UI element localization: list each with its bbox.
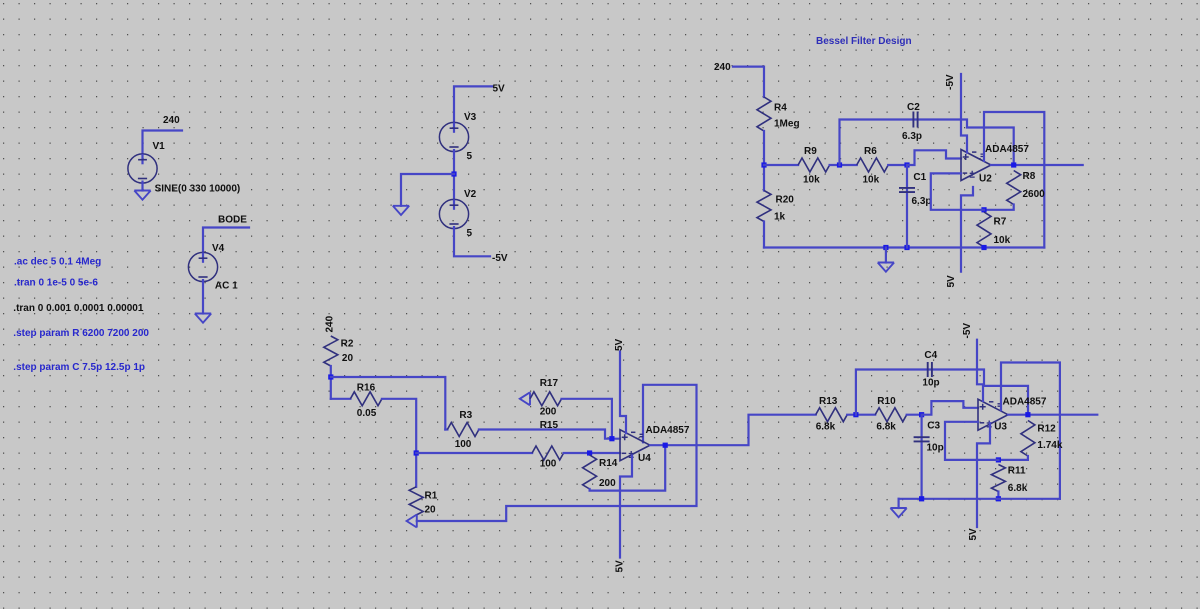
svg-text:6.8k: 6.8k	[816, 422, 836, 433]
node R10/C3/+in	[919, 412, 924, 417]
node R11/rail	[996, 496, 1001, 501]
svg-text:R10: R10	[877, 396, 896, 407]
svg-text:5: 5	[467, 151, 473, 162]
svg-text:6.3p: 6.3p	[902, 131, 922, 142]
ground (V3/V2)	[393, 206, 409, 215]
voltage source V1	[128, 154, 157, 183]
svg-text:200: 200	[540, 407, 557, 418]
resistor R7	[977, 212, 991, 247]
svg-text:AC 1: AC 1	[215, 281, 238, 292]
svg-text:C3: C3	[927, 421, 940, 432]
resistor R12	[1021, 421, 1035, 457]
wire R1 net to U4 PD	[417, 385, 697, 521]
svg-text:0.05: 0.05	[357, 408, 377, 419]
node R8/R7/feedback	[981, 207, 986, 212]
svg-text:10p: 10p	[922, 378, 939, 389]
resistor R13	[816, 408, 848, 422]
wire to ground (V3/V2)	[401, 174, 454, 206]
svg-text:5V: 5V	[615, 560, 626, 573]
svg-text:5V: 5V	[946, 275, 957, 288]
resistor R4	[757, 97, 771, 131]
svg-text:R12: R12	[1037, 424, 1056, 435]
node R15/R14	[587, 450, 592, 455]
svg-text:R1: R1	[425, 491, 438, 502]
svg-text:1k: 1k	[774, 212, 786, 223]
svg-text:R6: R6	[864, 146, 877, 157]
svg-text:10k: 10k	[994, 235, 1011, 246]
wire rail to ground stub	[885, 248, 887, 263]
node main line left	[414, 450, 419, 455]
svg-text:R4: R4	[774, 103, 787, 114]
svg-text:SINE(0 330 10000): SINE(0 330 10000)	[155, 183, 241, 194]
svg-text:BODE: BODE	[218, 215, 247, 226]
voltage source V4	[188, 252, 217, 281]
svg-text:5V: 5V	[968, 528, 979, 541]
svg-text:R16: R16	[357, 383, 376, 394]
wire C4 feedback	[856, 370, 1028, 415]
resistor R14	[583, 455, 597, 489]
stage3 bottom rail	[899, 498, 1060, 500]
svg-text:.step param C 7.5p 12.5p 1p: .step param C 7.5p 12.5p 1p	[13, 362, 145, 373]
wire U2 PD to rail	[984, 112, 1044, 248]
resistor R11	[991, 465, 1005, 492]
op-amp U4	[620, 430, 650, 461]
node U4 output	[663, 443, 668, 448]
svg-text:V3: V3	[464, 112, 477, 123]
svg-text:-5V: -5V	[945, 74, 956, 90]
node U3 output	[1025, 412, 1030, 417]
wire U2 V- to 5V	[961, 187, 973, 272]
svg-text:240: 240	[325, 315, 336, 332]
wire rail to ground stub	[897, 499, 899, 508]
wire V2 bottom	[454, 229, 490, 257]
op-amp U3	[978, 399, 1008, 430]
ground (R1)	[407, 515, 417, 528]
svg-text:100: 100	[540, 459, 557, 470]
svg-text:ADA4857: ADA4857	[1003, 397, 1047, 408]
svg-text:R8: R8	[1023, 171, 1036, 182]
svg-text:240: 240	[163, 115, 180, 126]
svg-text:5: 5	[467, 228, 473, 239]
wire V4 top	[203, 228, 249, 253]
resistor R9	[798, 158, 830, 172]
wire R15 to U4 -in	[564, 452, 620, 454]
wire U3 V- to 5V	[977, 423, 990, 527]
wire 240 to R4	[733, 67, 764, 97]
svg-text:10p: 10p	[927, 443, 944, 454]
svg-text:-5V: -5V	[962, 323, 973, 339]
svg-text:V1: V1	[153, 141, 166, 152]
resistor R20	[757, 191, 771, 222]
wire -5V rail to U2 V+	[961, 74, 967, 153]
svg-text:5V: 5V	[614, 338, 625, 351]
svg-text:R7: R7	[994, 217, 1007, 228]
wire to U2 +in	[907, 150, 961, 165]
svg-text:6.8k: 6.8k	[876, 422, 896, 433]
svg-text:V2: V2	[464, 189, 477, 200]
svg-text:R13: R13	[819, 396, 838, 407]
svg-text:U4: U4	[638, 453, 651, 464]
node rail/ground	[883, 245, 888, 250]
node R13/R10/C4	[853, 412, 858, 417]
svg-text:.ac dec 5 0.1 4Meg: .ac dec 5 0.1 4Meg	[14, 257, 101, 268]
svg-text:U2: U2	[979, 174, 992, 185]
wire node to R3	[331, 377, 446, 430]
svg-text:6.8k: 6.8k	[1008, 483, 1028, 494]
wire R9 to R6	[830, 164, 857, 166]
svg-text:2600: 2600	[1023, 189, 1046, 200]
wire C3 branch	[920, 415, 922, 499]
svg-text:6.3p: 6.3p	[912, 196, 932, 207]
svg-text:1.74k: 1.74k	[1037, 440, 1062, 451]
wire R6 to C1 node	[888, 164, 907, 166]
capacitor C2	[913, 112, 917, 128]
wire R8 to R7	[984, 205, 1014, 210]
wire feedback to U3 -in	[945, 422, 998, 460]
resistor R16	[350, 392, 382, 406]
node R9/R6/C2	[837, 162, 842, 167]
resistor R8	[1007, 171, 1021, 205]
svg-text:R14: R14	[599, 458, 618, 469]
capacitor C3	[914, 437, 930, 441]
svg-text:R11: R11	[1008, 466, 1026, 477]
node R4/R20/R9	[761, 162, 766, 167]
ground (V1)	[134, 191, 150, 200]
svg-text:R17: R17	[540, 378, 559, 389]
wire to R16	[331, 398, 351, 400]
wire U4 V- to 5V	[620, 456, 632, 558]
svg-text:10k: 10k	[803, 175, 820, 186]
wire 5V rail to U4 V+	[620, 352, 626, 434]
svg-text:ADA4857: ADA4857	[985, 144, 1029, 155]
node V3/V2 midpoint	[451, 171, 456, 176]
wire R20 to rail	[763, 222, 765, 248]
resistor R2	[324, 336, 338, 366]
svg-text:20: 20	[342, 353, 354, 364]
ground (stage1)	[878, 263, 894, 272]
wire R3 lead	[445, 428, 447, 430]
svg-text:.tran 0 0.001 0.0001 0.00001: .tran 0 0.001 0.0001 0.00001	[13, 303, 144, 314]
ground (stage3)	[890, 508, 906, 517]
svg-text:R9: R9	[804, 146, 817, 157]
svg-text:C4: C4	[924, 350, 937, 361]
svg-text:240: 240	[714, 62, 731, 73]
wire R11 to rail	[997, 492, 999, 499]
svg-text:100: 100	[455, 439, 472, 450]
wire to U3 +in	[922, 401, 978, 415]
node R6/C1/+in	[904, 162, 909, 167]
svg-text:C1: C1	[913, 172, 926, 183]
wire R16 to main node / R1	[382, 399, 416, 487]
svg-text:20: 20	[425, 505, 437, 516]
wire node to R9	[764, 164, 798, 166]
wire R2 to node	[330, 366, 332, 399]
wire V3 top	[454, 86, 492, 122]
svg-text:R3: R3	[459, 410, 472, 421]
node U4 +in	[609, 436, 614, 441]
resistor R3	[447, 423, 479, 437]
svg-text:ADA4857: ADA4857	[646, 425, 690, 436]
op-amp U2	[961, 150, 991, 181]
wire R13 to R10	[847, 414, 875, 416]
svg-text:R15: R15	[540, 420, 559, 431]
wire C2 feedback	[840, 120, 1014, 166]
svg-text:U3: U3	[994, 422, 1007, 433]
capacitor C1	[899, 188, 915, 192]
wire V1 top	[143, 131, 183, 155]
svg-text:.step param R 6200 7200 200: .step param R 6200 7200 200	[13, 328, 149, 339]
resistor R1	[409, 487, 423, 515]
svg-text:10k: 10k	[863, 175, 880, 186]
svg-text:R20: R20	[776, 195, 795, 206]
wire R10 to C3 node	[907, 414, 922, 416]
wire V1 to ground	[141, 183, 143, 191]
wire V4 to ground	[202, 282, 204, 314]
stage1 output wire	[991, 164, 1083, 166]
wire -5V rail to U3 V+	[977, 340, 983, 401]
node rail/C3 bottom	[919, 496, 924, 501]
node R12/R11/feedback	[996, 457, 1001, 462]
stage3 output wire	[1008, 414, 1097, 416]
svg-text:200: 200	[599, 478, 616, 489]
wire C1 branch	[906, 165, 908, 248]
svg-text:.tran 0 1e-5 0 5e-6: .tran 0 1e-5 0 5e-6	[14, 278, 98, 289]
voltage source V2	[439, 199, 468, 228]
node rail/C1	[904, 245, 909, 250]
svg-text:Bessel Filter Design: Bessel Filter Design	[816, 36, 912, 47]
node R7/rail	[981, 245, 986, 250]
capacitor C4	[928, 362, 932, 377]
ground (R17)	[520, 392, 530, 405]
wire feedback to U2 -in	[931, 173, 984, 209]
wire R4 to R20	[763, 131, 765, 191]
ground (V4)	[195, 314, 211, 323]
svg-text:-5V: -5V	[492, 253, 508, 264]
svg-text:1Meg: 1Meg	[774, 119, 800, 130]
wire V3-V2	[453, 152, 455, 200]
svg-text:C2: C2	[907, 102, 920, 113]
wire R12 to R11	[998, 456, 1028, 460]
resistor R6	[857, 158, 889, 172]
resistor R10	[875, 408, 907, 422]
voltage source V3	[439, 122, 468, 151]
wire R3 to U4 +in	[479, 430, 620, 439]
svg-text:5V: 5V	[493, 84, 506, 95]
wire U3 PD to rail	[1001, 363, 1060, 499]
svg-text:R2: R2	[341, 339, 354, 350]
node R2/R16	[328, 374, 333, 379]
svg-text:V4: V4	[212, 243, 225, 254]
wire R14 feedback to output	[590, 445, 666, 490]
resistor R17	[530, 392, 562, 406]
stage2 output wire	[650, 415, 816, 446]
wire main to R15	[416, 452, 532, 454]
resistor R15	[532, 446, 564, 460]
wire R17 to +in node	[562, 399, 612, 439]
node U2 output	[1011, 162, 1016, 167]
stage1 bottom rail	[764, 246, 1044, 248]
